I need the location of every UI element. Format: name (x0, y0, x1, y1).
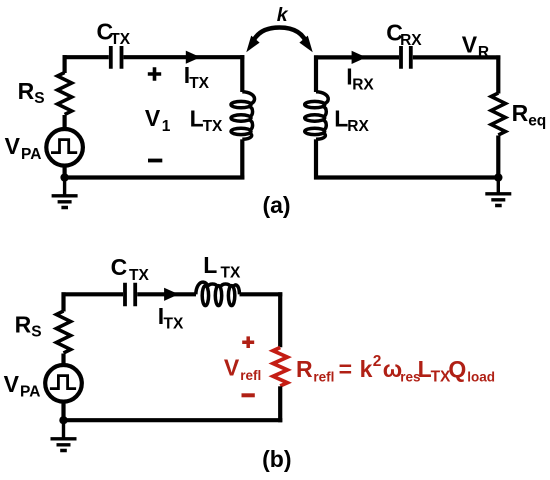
label CRX (386, 19, 422, 49)
wire (b) top rail right segment (240, 292, 283, 296)
arrow ITX (b) (164, 288, 179, 301)
svg-text:TX: TX (221, 265, 241, 282)
svg-text:V: V (224, 355, 240, 381)
label Vrefl red (224, 355, 261, 384)
node V1 (145, 105, 171, 135)
svg-text:S: S (34, 90, 44, 107)
svg-text:R: R (478, 44, 489, 61)
svg-text:PA: PA (20, 384, 40, 401)
svg-text:V: V (5, 133, 21, 159)
svg-text:load: load (467, 370, 495, 385)
wire (b) top rail left segment (62, 292, 197, 296)
resistor Req (491, 93, 505, 135)
pulse symbol (51, 140, 77, 153)
svg-text:R: R (296, 356, 313, 382)
wire RX bottom rail (314, 175, 500, 179)
label minus red (242, 393, 255, 397)
coupling arc arrow k (246, 28, 312, 53)
label k (277, 4, 289, 26)
svg-text:RX: RX (347, 118, 369, 135)
capacitor CTX (111, 46, 122, 69)
svg-text:TX: TX (129, 267, 149, 284)
ground right of (a) (485, 178, 511, 206)
svg-text:S: S (31, 324, 41, 341)
svg-text:RX: RX (352, 77, 374, 94)
svg-text:R: R (512, 100, 529, 126)
label Req (512, 100, 547, 130)
wire TX top rail left segment (63, 55, 245, 59)
wire TX right branch top (240, 55, 244, 92)
svg-text:L: L (203, 252, 217, 278)
label plus red (242, 336, 254, 348)
inductor LTX coil (231, 92, 255, 140)
svg-text:(b): (b) (262, 446, 291, 472)
ground (b) (51, 420, 77, 450)
equation Rrefl label (296, 353, 495, 386)
capacitor CRX (401, 46, 411, 69)
label CTX (97, 18, 131, 48)
wire (b) right branch top (278, 292, 282, 347)
node junction dot (b) (59, 416, 67, 424)
title (a) (262, 192, 290, 218)
svg-text:=: = (339, 356, 352, 382)
svg-text:L: L (334, 105, 348, 131)
svg-text:V: V (4, 371, 20, 397)
label LTX (b) (203, 252, 241, 282)
wire RX left branch top (314, 55, 318, 92)
resistor Rrefl red (273, 348, 287, 386)
wire RX left branch bottom (314, 139, 318, 179)
svg-text:eq: eq (528, 112, 546, 129)
svg-text:R: R (15, 311, 32, 337)
svg-text:(a): (a) (262, 192, 290, 218)
arrow IRX current (352, 51, 367, 64)
svg-text:L: L (418, 356, 432, 382)
wire VPA to bottom rail (b) (61, 402, 65, 421)
node junction dot right (494, 173, 502, 181)
label VPA (5, 133, 42, 163)
label LRX (334, 105, 369, 135)
svg-text:V: V (145, 105, 161, 131)
ground left of (a) (52, 178, 78, 208)
svg-text:V: V (462, 32, 478, 58)
label IRX (346, 64, 374, 94)
svg-text:R: R (18, 78, 35, 104)
arrow ITX current (186, 51, 201, 64)
wire TX bottom rail (63, 175, 245, 179)
svg-text:TX: TX (164, 316, 184, 333)
wire RX top rail (314, 55, 500, 59)
wire Req to bottom rail (496, 136, 500, 180)
label VPA (b) (4, 371, 41, 401)
label ITX (b) (158, 303, 184, 333)
wire (b) right branch bottom (278, 386, 282, 422)
label LTX (190, 105, 223, 135)
svg-text:PA: PA (21, 146, 41, 163)
capacitor CTX (b) (125, 283, 135, 307)
title (b) (262, 446, 291, 472)
node plus sign (148, 67, 161, 80)
label ITX (184, 62, 210, 92)
voltage source VPA circle (b) (45, 365, 82, 402)
pulse symbol (b) (50, 376, 76, 389)
svg-text:k: k (360, 356, 373, 382)
svg-text:C: C (111, 254, 128, 280)
resistor RS (b) (56, 311, 70, 353)
wire TX left branch top (62, 55, 66, 73)
label RS (18, 78, 45, 107)
wire RS to VPA (b) (61, 354, 65, 366)
inductor LTX (b) horizontal coil (196, 282, 240, 306)
label CTX (b) (111, 254, 150, 284)
inductor LRX coil (305, 92, 329, 140)
svg-text:1: 1 (162, 118, 171, 135)
svg-text:TX: TX (110, 31, 130, 48)
label VR (462, 32, 489, 62)
node junction dot left (60, 173, 68, 181)
wire VPA to bottom rail (62, 166, 66, 178)
wire RS to VPA (62, 115, 66, 130)
resistor RS (57, 73, 71, 115)
wire RX right branch top (496, 55, 500, 93)
wire TX right branch bottom (240, 139, 244, 179)
voltage source VPA circle (46, 129, 83, 166)
svg-text:Q: Q (448, 356, 466, 382)
label RS (b) (15, 311, 42, 340)
svg-text:TX: TX (189, 75, 209, 92)
svg-text:refl: refl (240, 368, 261, 383)
svg-text:TX: TX (203, 118, 223, 135)
svg-text:L: L (190, 105, 204, 131)
svg-text:k: k (277, 4, 289, 26)
svg-text:refl: refl (313, 370, 334, 385)
wire (b) bottom rail (62, 418, 283, 422)
node minus sign (148, 159, 162, 163)
svg-text:RX: RX (400, 32, 422, 49)
wire (b) left branch top (61, 292, 65, 311)
svg-text:2: 2 (373, 353, 382, 370)
